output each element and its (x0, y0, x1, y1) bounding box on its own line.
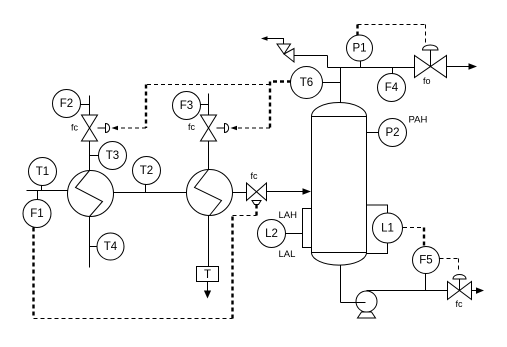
instrument bubbles (23, 35, 440, 274)
instrument F1 (23, 200, 51, 228)
svg-text:P2: P2 (385, 127, 399, 139)
wire P2 stem (367, 132, 379, 134)
wire V1 to E1 (89, 141, 91, 171)
level standpipe L2 tap (303, 209, 312, 248)
instrument F5 (413, 247, 440, 274)
steam trap T (197, 267, 219, 282)
wire L1 lower tap (367, 244, 388, 254)
signal T6 to V1 horizontal (146, 84, 270, 86)
svg-text:fc: fc (456, 299, 464, 309)
node bottoms outlet arrow (476, 287, 484, 294)
wire overhead outlet (447, 66, 471, 68)
wire column bottom stem (340, 265, 342, 303)
wire V2 to E2 (208, 141, 210, 170)
wire F1 stem (37, 191, 39, 200)
wire T6 link to overhead (322, 82, 341, 84)
wire L1 upper tap (367, 205, 388, 213)
valve V3 (fc, feed valve) (247, 183, 267, 205)
svg-text:F1: F1 (30, 208, 43, 220)
svg-text:L1: L1 (381, 223, 394, 235)
instrument L2 (258, 220, 286, 248)
wire pump suction (341, 302, 366, 304)
heat exchanger E2 (187, 170, 233, 216)
signal P1 to V4 horizontal (358, 24, 426, 26)
signal arrowheads (112, 126, 238, 130)
signal lines (dashed) (34, 25, 459, 319)
wire P1 stem (360, 61, 362, 68)
wire T4 stem (90, 246, 97, 248)
heat exchanger E1 (68, 171, 114, 217)
wire F2 stem (81, 104, 90, 106)
wire riser to relief valve (327, 56, 329, 68)
wire bottoms outlet (472, 290, 478, 292)
wire E1 outlet bottom (89, 217, 91, 268)
wire F4 stem (392, 68, 394, 74)
instrument T6 (291, 67, 323, 99)
wire T1 stem (41, 186, 43, 191)
signal drop to V1 (145, 85, 147, 129)
wire utility inlet above valve V1 (89, 96, 91, 115)
wire feed line inlet (27, 190, 68, 192)
wire E1 to E2 (114, 192, 187, 194)
svg-text:PAH: PAH (409, 115, 428, 126)
wire T3 stem (90, 155, 99, 157)
wire E2 to feed valve (233, 192, 247, 194)
valve V5 (fc, bottoms product) (448, 275, 472, 300)
valve V4 (fo, overhead product) (415, 45, 447, 78)
signal into V1 actuator (118, 127, 147, 129)
signal to V3 (233, 215, 257, 217)
relief valve PSV (277, 44, 294, 62)
signal V3 actuator stub (255, 205, 257, 216)
instrument L1 (373, 213, 403, 243)
signal bottom run (34, 318, 233, 320)
valve V2 (fc, steam to E2) (201, 115, 229, 141)
node arrow into V1 actuator (112, 126, 119, 130)
wire feed valve to column (267, 191, 304, 193)
wire L2 stem (286, 233, 303, 235)
node arrow into V2 actuator (231, 126, 238, 130)
svg-text:T3: T3 (106, 150, 119, 162)
signal F1 down (32, 228, 34, 319)
wire T2 stem (145, 185, 147, 193)
instrument T1 (29, 158, 57, 186)
signal L1 output (403, 227, 424, 229)
svg-text:T1: T1 (36, 166, 49, 178)
wire F5 stem (425, 274, 427, 291)
signal rise at right (231, 216, 233, 319)
signal drop to V5 dome (458, 259, 460, 273)
svg-text:F3: F3 (180, 100, 193, 112)
svg-text:fc: fc (71, 123, 79, 133)
column C1 (312, 103, 367, 266)
wire pump discharge (367, 290, 448, 292)
node feed arrow into column (303, 188, 312, 194)
valve V1 (fc, steam to E1) (82, 115, 110, 141)
instrument T3 (99, 142, 127, 170)
signal drop to V4 dome (425, 25, 427, 45)
svg-text:T6: T6 (300, 77, 313, 89)
instrument T2 (133, 157, 161, 185)
svg-text:fc: fc (251, 171, 259, 181)
wire vent line (267, 39, 284, 45)
svg-text:T2: T2 (140, 165, 153, 177)
signal into V2 actuator (237, 127, 271, 129)
svg-text:F5: F5 (419, 255, 432, 267)
wire overhead header (328, 67, 415, 69)
svg-text:T: T (204, 269, 211, 281)
instrument P2 (379, 119, 407, 147)
signal F5 output (440, 258, 459, 260)
wire F3 stem (201, 104, 209, 106)
signal P1 up stub (356, 25, 358, 36)
instrument T4 (97, 233, 124, 260)
wire column overhead stem (340, 68, 342, 103)
svg-text:fc: fc (188, 122, 196, 132)
wire trap outlet arrow (207, 282, 209, 292)
svg-text:LAH: LAH (279, 210, 298, 221)
instrument P1 (347, 35, 373, 61)
svg-text:T4: T4 (104, 241, 118, 253)
svg-text:P1: P1 (352, 43, 366, 55)
wire utility inlet above valve V2 (208, 94, 210, 115)
signal drop to V2 (269, 82, 271, 129)
node overhead outlet arrow (469, 63, 478, 69)
svg-text:L2: L2 (265, 228, 278, 240)
signal T6 output stub (270, 80, 291, 82)
svg-text:F4: F4 (385, 82, 399, 94)
signal drop to F5 (423, 228, 425, 247)
svg-text:LAL: LAL (279, 249, 296, 260)
pump PU1 (centrifugal) (356, 291, 377, 318)
wire relief valve inlet (294, 55, 328, 57)
wire E2 bottom to trap (208, 216, 210, 267)
svg-text:F2: F2 (60, 98, 73, 110)
node vent arrow (261, 36, 268, 41)
instrument F2 (53, 90, 81, 118)
instrument F4 (378, 74, 406, 102)
svg-text:fo: fo (423, 76, 431, 86)
instrument F3 (173, 92, 201, 120)
